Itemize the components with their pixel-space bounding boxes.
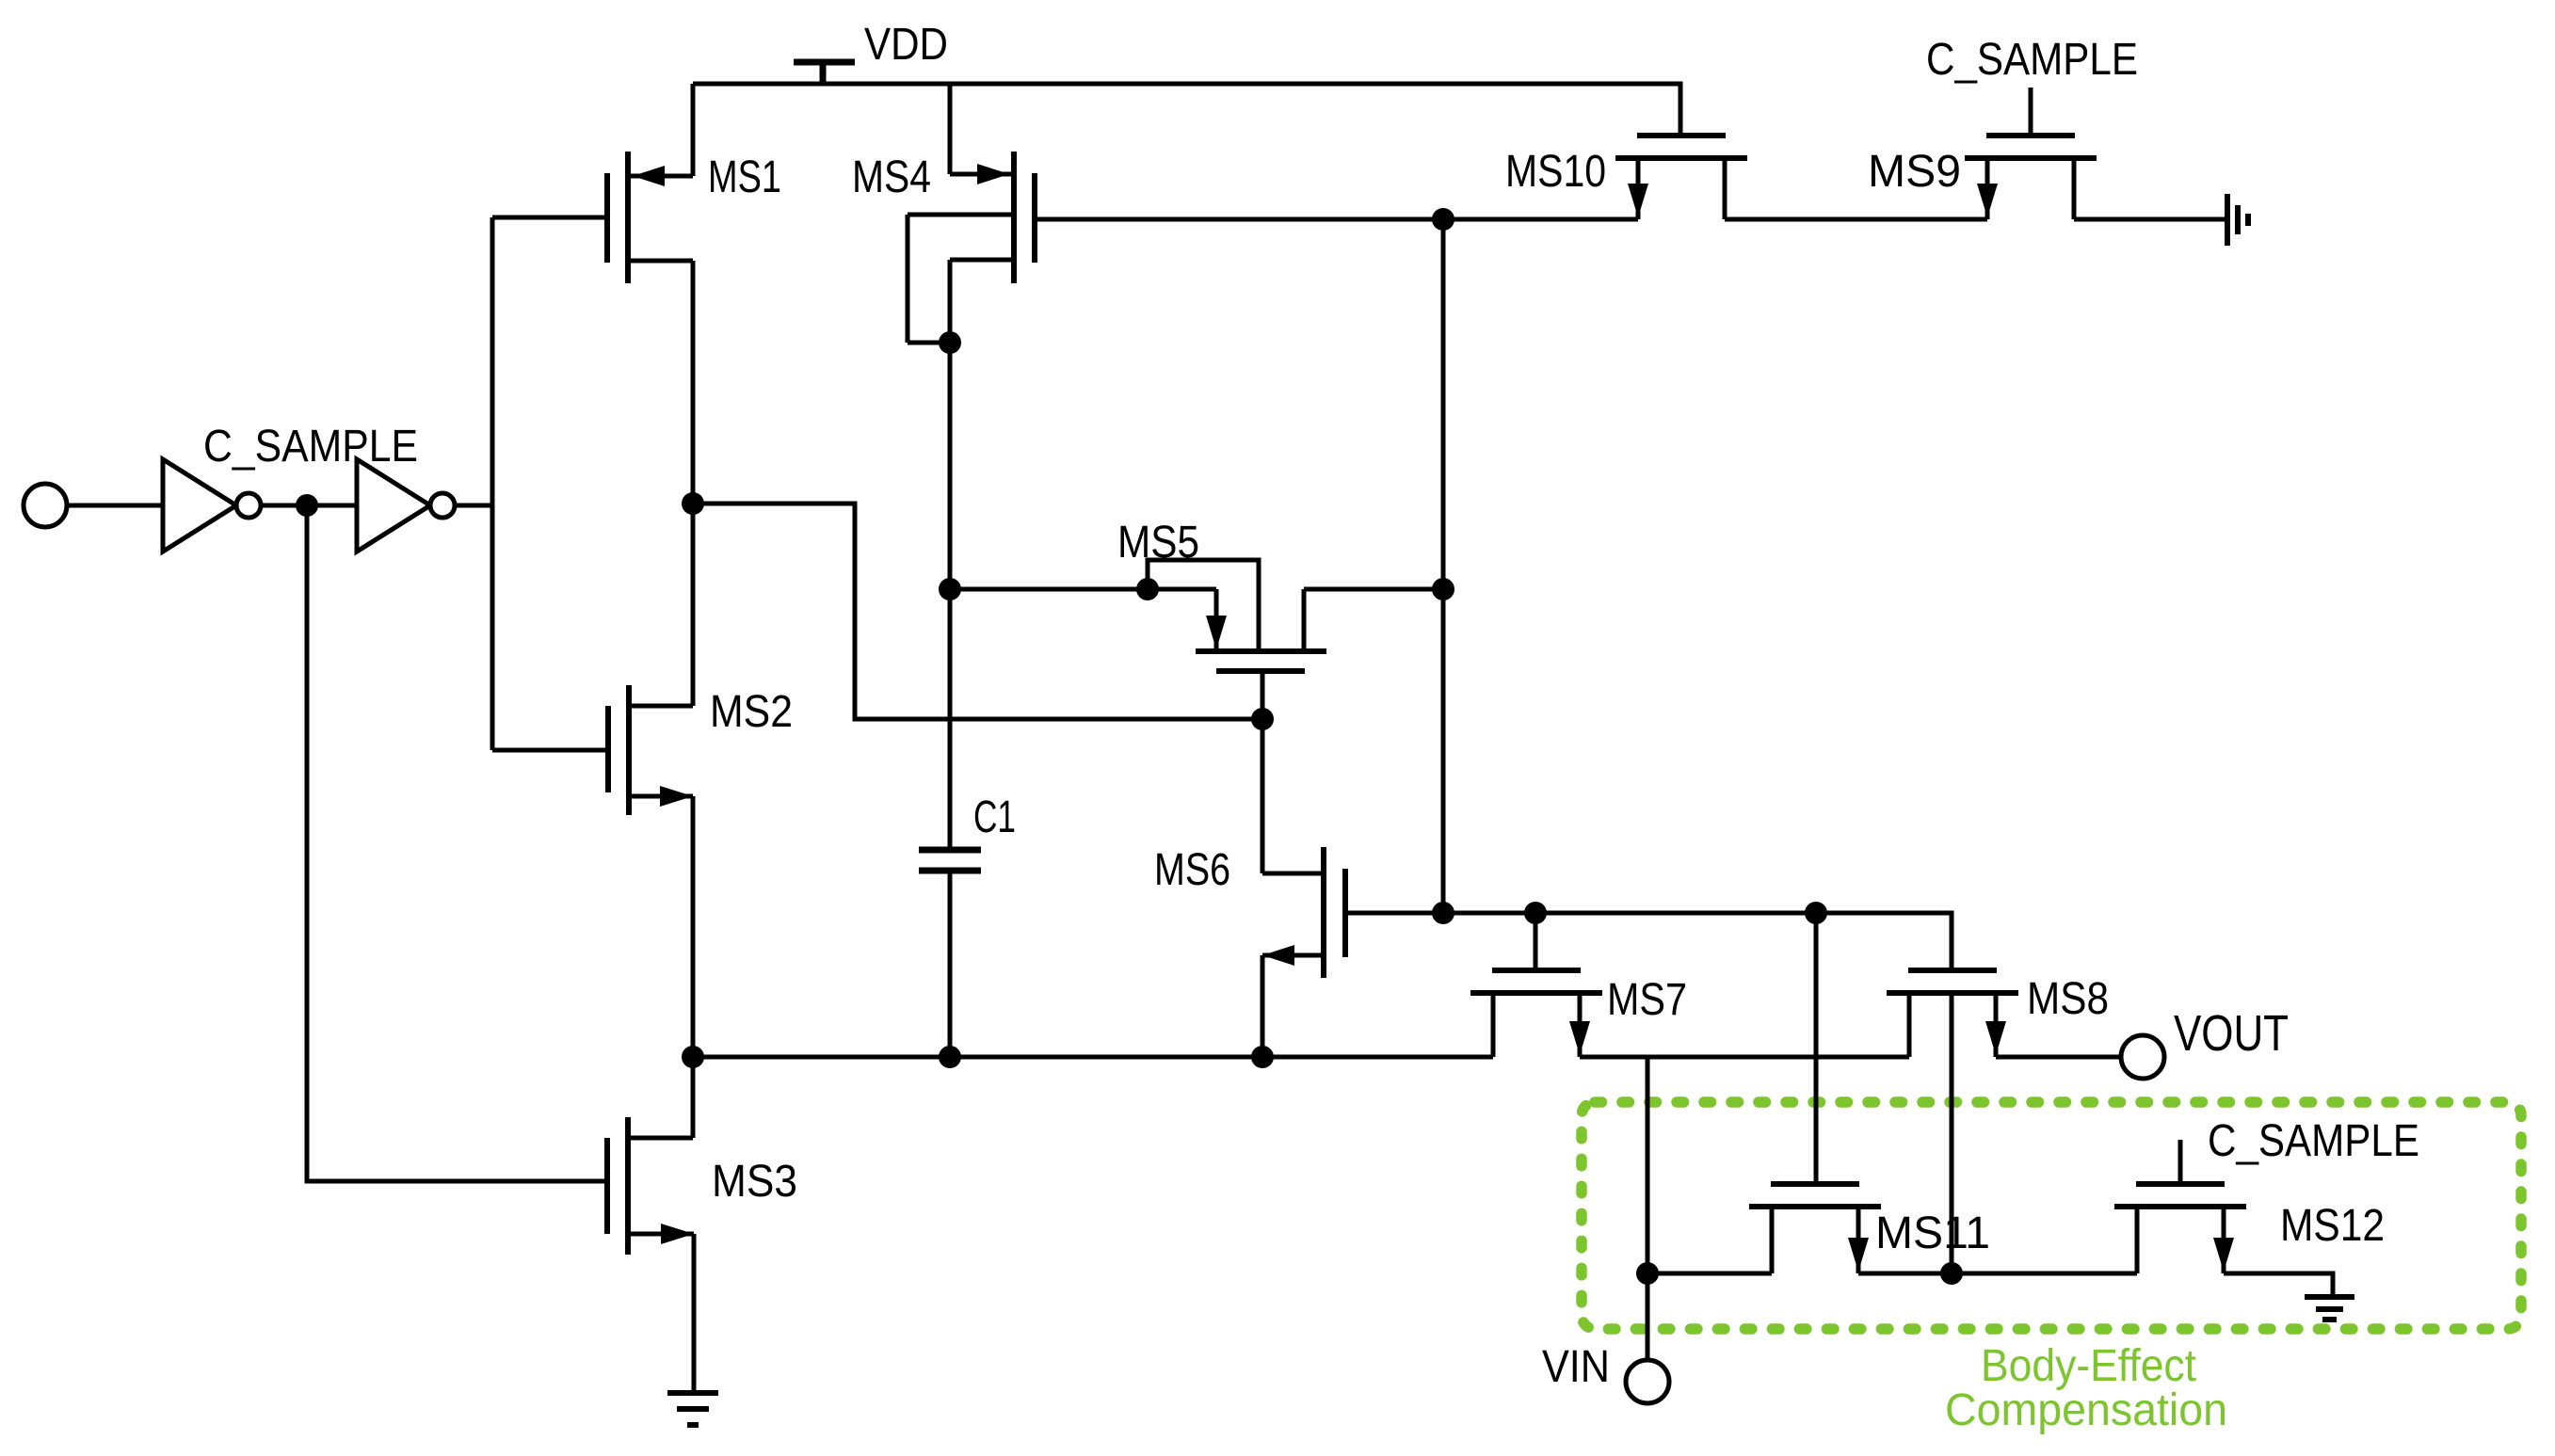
svg-text:MS12: MS12 [2280,1201,2385,1251]
wire output rail mid [1580,1055,1909,1060]
port input circle [24,484,67,527]
transistor MS1 [607,84,693,504]
svg-text:MS5: MS5 [1117,518,1199,568]
node MS5 gate junction [1251,708,1274,730]
wire VIN vertical [1646,1273,1650,1360]
node rail C1 [939,1046,961,1068]
wire node A horizontal [950,587,1216,592]
node MS1 drain [682,492,704,515]
wire MS1 gate [492,216,607,220]
transistor MS12 [2114,1140,2246,1273]
port VOUT circle [2121,1035,2164,1079]
node gate wire junction [1432,208,1454,231]
inverter U2 [357,459,455,552]
node MS8 bulk junction [1940,1262,1963,1285]
wire MS5 bulk over-route [1148,560,1259,648]
green dashed box Body-Effect Compensation [1582,1102,2521,1329]
wire MS10 drain to MS9 source [1725,217,1987,222]
svg-text:C1: C1 [973,792,1016,842]
wire output rail left [693,1055,1493,1060]
ground MS12 [2305,1297,2354,1320]
svg-text:C_SAMPLE: C_SAMPLE [1926,35,2138,85]
wire input to inverter 1 [67,504,163,508]
node MS6 gate [1432,902,1454,924]
wire inverter2 output [455,504,492,508]
node A bulk tap [1136,578,1159,600]
wire gate bus y970 [1443,913,1952,970]
wire body net [1647,1272,1772,1276]
wire MS11 gate vertical [1814,913,1819,1184]
svg-text:C_SAMPLE: C_SAMPLE [2208,1116,2419,1166]
wire MS12 to ground [2224,1273,2333,1297]
svg-text:MS7: MS7 [1607,975,1687,1025]
wire MS3 gate from C_SAMPLE [307,505,607,1181]
transistor MS5 [1196,589,1326,719]
wire MS9 drain to ground [2074,217,2227,222]
wire vertical bus x1533 [1441,219,1446,913]
svg-text:VOUT: VOUT [2174,1005,2289,1062]
transistor MS10 [1615,136,1747,219]
transistor MS9 [1965,88,2097,219]
wire MS2 gate [492,748,608,753]
svg-text:MS4: MS4 [852,152,931,202]
node A left [939,578,961,600]
wire inverter1 to inverter2 [261,504,357,508]
node VIN junction [1636,1262,1659,1285]
node rail MS2 [682,1046,704,1068]
inverter U1 [163,459,261,552]
node MS4 drain junction [939,331,961,354]
transistor MS8 [1887,970,2018,1273]
transistor MS7 [1470,913,1602,1057]
wire VIN drop [1646,1057,1650,1273]
node rail MS6 [1251,1046,1274,1068]
capacitor C1 [919,589,981,1057]
VDD symbol [794,62,855,86]
svg-text:VIN: VIN [1542,1342,1610,1392]
transistor MS2 [608,504,693,1057]
transistor MS4 [908,84,1035,343]
wire MS4 gate to MS10 source [1035,217,1638,222]
svg-text:MS10: MS10 [1505,147,1606,197]
svg-text:MS6: MS6 [1154,845,1230,895]
svg-text:MS8: MS8 [2027,974,2109,1024]
svg-text:MS3: MS3 [712,1157,797,1207]
wire node to MS5 gate [693,504,1262,719]
svg-text:MS2: MS2 [710,687,793,737]
svg-text:MS9: MS9 [1868,147,1961,197]
wire body net mid [1858,1272,2137,1276]
svg-text:MS1: MS1 [708,152,781,202]
wire VDD rail [693,84,1680,136]
svg-text:Compensation: Compensation [1945,1385,2227,1435]
svg-text:Body-Effect: Body-Effect [1981,1341,2196,1391]
node MS7 gate [1524,902,1547,924]
transistor MS6 [1262,719,1443,1057]
wire output rail right [1996,1055,2121,1060]
wire gate bus x523 [490,217,495,750]
node bus MS5 [1432,578,1454,600]
transistor MS11 [1749,1184,1881,1273]
port VIN circle [1626,1360,1669,1403]
wire MS4 drain to node A [948,343,953,589]
svg-text:MS11: MS11 [1875,1208,1990,1258]
node C_SAMPLE tap [296,494,318,517]
svg-text:C_SAMPLE: C_SAMPLE [203,422,418,472]
transistor MS3 [607,1057,694,1393]
node MS11 gate tap [1805,902,1827,924]
ground right (rotated) [2227,194,2248,246]
wire MS5 right to bus [1304,587,1443,592]
svg-text:VDD: VDD [864,20,948,70]
ground MS3 [667,1393,718,1425]
